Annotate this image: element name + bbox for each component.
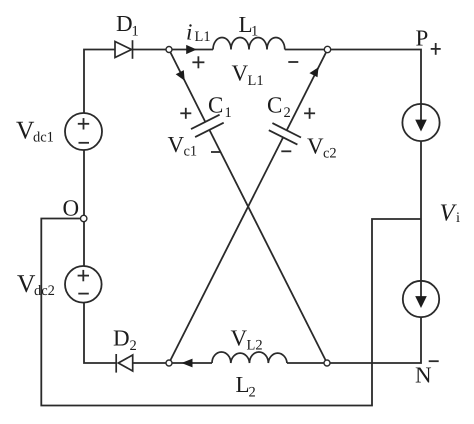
wire node B to top-right corner down to current source I1 bbox=[328, 50, 422, 104]
node A (open circle) bbox=[166, 47, 172, 53]
capacitor C1 branch wire upper bbox=[169, 50, 205, 122]
node B (open circle) bbox=[324, 46, 330, 52]
wire node C to D2 bbox=[133, 362, 169, 364]
wire node A to L1 bbox=[169, 49, 213, 51]
node C (open circle) bbox=[166, 360, 172, 366]
label V_c2 bbox=[307, 134, 337, 162]
svg-text:V: V bbox=[440, 200, 458, 227]
capacitor C2 branch wire upper bbox=[287, 50, 328, 131]
diode D2 bbox=[116, 354, 133, 373]
svg-text:V: V bbox=[232, 61, 249, 86]
svg-text:V: V bbox=[307, 134, 324, 159]
arrow on bottom wire (pointing left toward node C) bbox=[181, 359, 192, 368]
capacitor C2 plates bbox=[269, 123, 301, 145]
voltage source Vdc2 bbox=[65, 266, 102, 303]
svg-text:L: L bbox=[236, 372, 250, 397]
wire node O to Vdc1 bbox=[83, 150, 85, 219]
label V_L2 bbox=[231, 326, 263, 354]
label V_L1 bbox=[232, 61, 264, 90]
svg-text:C: C bbox=[208, 93, 223, 118]
svg-text:2: 2 bbox=[284, 105, 291, 121]
label V_dc1 bbox=[16, 116, 54, 146]
wire top-left horizontal (corner to D1) bbox=[84, 50, 115, 114]
diode D1 bbox=[115, 40, 133, 59]
polarity + for V_L1 bbox=[192, 56, 204, 68]
current source I2 bbox=[403, 281, 439, 317]
polarity + for V_c2 bbox=[304, 108, 315, 119]
wire Vdc2 to node O bbox=[83, 219, 85, 267]
label D1 bbox=[116, 11, 139, 40]
polarity + for V_c1 bbox=[180, 108, 191, 119]
wire D2 to bottom-left corner up to Vdc2 bbox=[84, 303, 116, 363]
svg-text:1: 1 bbox=[132, 24, 139, 40]
label C2 bbox=[267, 93, 291, 122]
svg-text:dc1: dc1 bbox=[33, 130, 54, 146]
voltage source Vdc1 bbox=[65, 113, 102, 150]
polarity - for V_L1 bbox=[288, 61, 298, 63]
label D2 bbox=[113, 326, 137, 355]
svg-text:dc2: dc2 bbox=[34, 283, 55, 299]
polarity + for node P bbox=[431, 43, 441, 55]
polarity - for V_c2 bbox=[281, 150, 291, 152]
inductor L1 bbox=[213, 38, 285, 50]
wire L1 to node B bbox=[285, 49, 328, 51]
svg-text:L2: L2 bbox=[247, 338, 263, 354]
svg-text:N: N bbox=[415, 363, 432, 388]
polarity - for V_c1 bbox=[211, 151, 221, 153]
label i_L1 bbox=[186, 20, 211, 46]
svg-text:L1: L1 bbox=[195, 29, 211, 45]
svg-text:L1: L1 bbox=[248, 73, 264, 89]
current source I1 bbox=[402, 104, 439, 141]
capacitor C1 branch wire lower bbox=[209, 130, 327, 363]
svg-text:V: V bbox=[168, 132, 185, 157]
arrow i_L1 on top wire bbox=[186, 45, 197, 54]
svg-text:P: P bbox=[416, 26, 429, 51]
wire I2 to bottom-right corner to node D bbox=[327, 317, 421, 363]
svg-text:c2: c2 bbox=[323, 146, 337, 162]
capacitor C2 branch wire lower bbox=[169, 137, 283, 363]
svg-text:c1: c1 bbox=[184, 144, 198, 160]
node O (open circle) bbox=[81, 215, 87, 221]
wire I1 to I2 right side bbox=[420, 141, 422, 281]
wire L2 to node C bbox=[169, 362, 212, 364]
svg-text:D: D bbox=[113, 326, 130, 351]
wire node D to L2 bbox=[287, 362, 327, 364]
node D (open circle) bbox=[324, 360, 330, 366]
wire outer loop from node O around bottom to mid right bbox=[41, 219, 421, 406]
wire D1 to node A bbox=[133, 49, 170, 51]
arrow on C1 branch (pointing down along line) bbox=[176, 70, 185, 81]
label V_i bbox=[440, 200, 461, 227]
svg-text:O: O bbox=[63, 196, 80, 221]
svg-text:i: i bbox=[456, 210, 460, 226]
svg-text:2: 2 bbox=[130, 338, 137, 354]
arrow on C2 branch (pointing up toward node B) bbox=[309, 67, 318, 77]
label V_dc2 bbox=[17, 269, 55, 299]
svg-text:1: 1 bbox=[225, 105, 232, 121]
svg-text:D: D bbox=[116, 11, 133, 36]
svg-text:V: V bbox=[231, 326, 248, 351]
polarity - for node N bbox=[429, 360, 439, 362]
svg-text:2: 2 bbox=[249, 385, 256, 401]
capacitor C1 plates bbox=[191, 115, 224, 137]
label V_c1 bbox=[168, 132, 198, 160]
svg-text:C: C bbox=[267, 93, 282, 118]
label C1 bbox=[208, 93, 232, 122]
inductor L2 bbox=[212, 352, 287, 363]
svg-text:i: i bbox=[186, 20, 192, 45]
label L2 bbox=[236, 372, 256, 401]
label L1 bbox=[239, 12, 259, 40]
svg-text:1: 1 bbox=[251, 24, 258, 40]
